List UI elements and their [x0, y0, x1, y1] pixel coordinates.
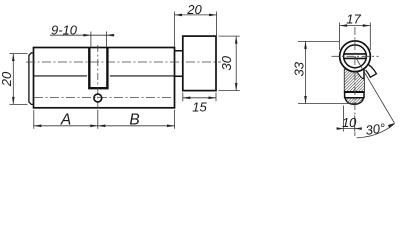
dim A arrow middle-left	[90, 125, 98, 128]
plug axis centerline (dash-dot)	[26, 61, 221, 63]
dim 20 top arrow right	[209, 14, 217, 17]
cylinder body outline	[34, 48, 175, 108]
svg-text:9-10: 9-10	[51, 22, 78, 37]
dim 20 left (plug diameter) dimension line	[12, 54, 14, 105]
body section right edge	[363, 68, 365, 99]
dim A arrow left	[34, 125, 42, 128]
dim 30 extension line top	[219, 35, 240, 37]
svg-text:20: 20	[186, 2, 202, 17]
svg-text:B: B	[129, 112, 139, 129]
dim B arrow middle-right	[98, 125, 106, 128]
dim 15 arrow left	[183, 97, 191, 100]
keyway slot lines	[344, 54, 367, 59]
lower centerline (dash-dot)	[34, 97, 174, 99]
svg-text:33: 33	[292, 61, 307, 76]
dim 20 top extension line right	[216, 12, 218, 36]
dim 30 extension line bottom	[219, 90, 240, 92]
dim 30 arrow bottom	[235, 83, 238, 91]
plug-circle tangent edge line	[34, 75, 175, 77]
dim A-B extension line left	[33, 110, 35, 129]
dim 9-10 arrow right (outside)	[106, 34, 114, 37]
cam slot centerline (vertical dash-dot)	[97, 45, 99, 108]
bottom cap hatched	[345, 98, 364, 105]
dim 20 left extension line bottom	[10, 103, 28, 105]
dim 20 left arrow top	[12, 54, 15, 62]
svg-text:30°: 30°	[365, 120, 387, 138]
bottom cap top line	[345, 97, 364, 99]
screw hole	[94, 94, 102, 102]
30deg ray	[355, 56, 394, 123]
dim 33 extension line top	[298, 40, 339, 42]
dim 9-10 extension line right	[105, 32, 107, 48]
dim 33 dimension line	[305, 41, 307, 103]
dim 17 extension line left	[339, 23, 341, 51]
thumbturn knob	[183, 36, 216, 91]
svg-text:10: 10	[342, 115, 357, 130]
dim 30 (knob height) dimension line	[235, 36, 237, 91]
body section left edge	[344, 69, 346, 98]
dim 15 arrow right	[209, 97, 217, 100]
svg-text:17: 17	[346, 12, 361, 27]
dim 20 top (thumbturn length) dimension line	[175, 14, 217, 16]
dim 30 arrow top	[235, 36, 238, 44]
dim 17 arrow left	[340, 24, 348, 27]
outer circle	[340, 41, 371, 72]
dim 30deg arc	[357, 124, 395, 138]
dim 33 extension line bottom	[298, 103, 360, 105]
dim 10 arrow right (outside)	[355, 127, 362, 130]
dim A-B extension line middle	[97, 110, 99, 129]
cam slot U-notch	[89, 48, 107, 89]
svg-text:20: 20	[0, 71, 14, 87]
horizontal centerline	[332, 55, 379, 57]
body hatched section	[345, 65, 364, 92]
dim 9-10 arrow left (outside)	[83, 34, 91, 37]
dim 9-10 dimension line	[50, 34, 115, 36]
svg-text:15: 15	[192, 99, 207, 114]
dim A-B dimension line	[34, 125, 175, 127]
dim 20 left extension line top	[10, 53, 28, 55]
vertical centerline	[354, 27, 356, 136]
dim 33 arrow bottom	[304, 96, 307, 104]
dim 15 extension line right	[215, 93, 217, 102]
dim 17 dimension line	[340, 25, 371, 27]
dim 15 extension line left	[182, 93, 184, 102]
thumbturn shaft	[175, 51, 183, 76]
dim 20 top extension line left	[174, 12, 176, 48]
dim 10 arrow left (outside)	[337, 127, 344, 130]
dim 30deg arc arrowhead	[388, 123, 395, 128]
dim 10 extension line right	[354, 116, 356, 132]
dim 15 (knob length) dimension line	[183, 97, 216, 99]
dim 33 arrow top	[304, 41, 307, 49]
dim 17 arrow right	[363, 24, 371, 27]
dim B arrow right	[167, 125, 175, 128]
body section bottom thick line	[344, 91, 365, 93]
dim 10 extension line left	[343, 106, 345, 132]
cutout boundary curve	[354, 65, 364, 79]
dim 10 dimension line	[338, 128, 361, 130]
inner circle	[344, 45, 367, 68]
plug face cap (left end)	[29, 53, 34, 105]
cam tab	[366, 63, 377, 77]
dim 20 left arrow bottom	[12, 97, 15, 105]
dim 9-10 extension line left	[90, 32, 92, 48]
dim 17 extension line right	[369, 23, 371, 51]
svg-text:A: A	[60, 112, 71, 129]
dim A-B extension line right	[174, 110, 176, 129]
svg-text:30: 30	[219, 55, 234, 70]
dim 20 top arrow left	[175, 14, 183, 17]
